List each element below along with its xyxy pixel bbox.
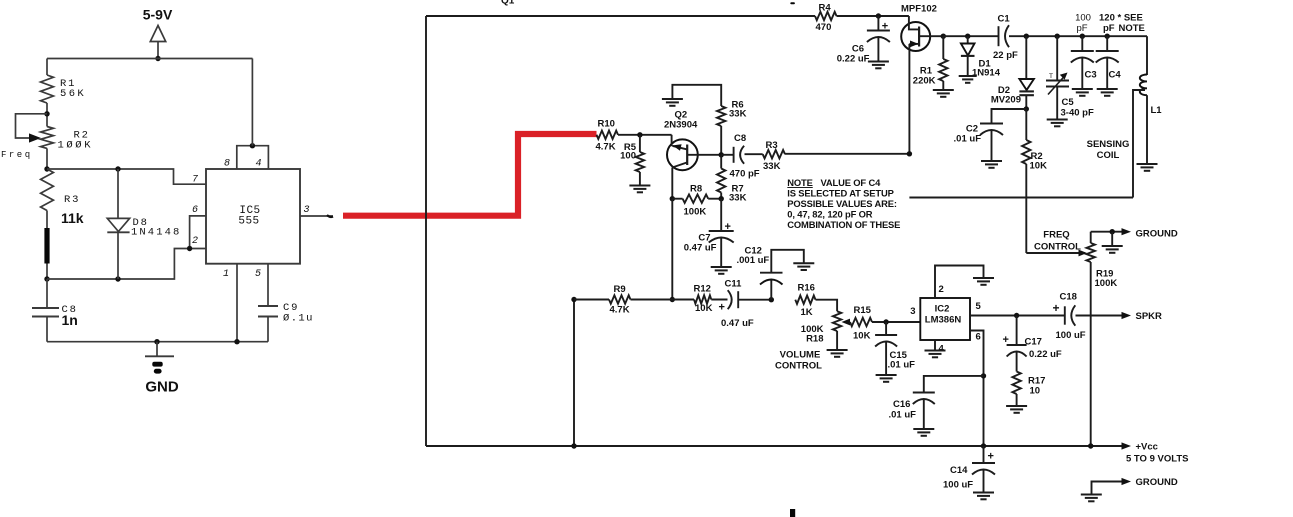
label C18 xyxy=(1060,292,1077,303)
svg-text:R4: R4 xyxy=(819,3,832,14)
wire emitter down xyxy=(671,199,673,300)
ground C5 xyxy=(1047,120,1068,127)
wire C8 bottom lead xyxy=(46,317,48,342)
label 100K xyxy=(58,140,94,152)
svg-text:6: 6 xyxy=(976,332,981,343)
wire R2 to freq pot xyxy=(1026,252,1085,254)
svg-text:* SEE: * SEE xyxy=(1118,13,1143,24)
label 3-40 pF xyxy=(1061,108,1094,119)
svg-text:2: 2 xyxy=(939,284,944,295)
svg-text:C3: C3 xyxy=(1085,70,1097,81)
svg-text:GROUND: GROUND xyxy=(1136,229,1178,240)
svg-text:100: 100 xyxy=(1075,13,1091,24)
ground R6 top xyxy=(662,99,683,106)
svg-text:10K: 10K xyxy=(1030,161,1048,172)
label C7 plus xyxy=(725,221,731,233)
node pin2-6 junction xyxy=(187,246,192,251)
label R8 xyxy=(690,184,702,195)
resistor R7 xyxy=(717,155,725,199)
wire feedback bottom xyxy=(909,197,1133,199)
svg-text:1n: 1n xyxy=(62,312,78,328)
wire R6 top rail xyxy=(672,85,721,106)
svg-text:R3: R3 xyxy=(766,140,778,151)
svg-text:COMBINATION OF THESE: COMBINATION OF THESE xyxy=(787,219,900,230)
label 56K xyxy=(60,88,86,100)
resistor R10 xyxy=(597,131,619,139)
wire drain to C1 xyxy=(943,35,998,37)
resistor R1 (osc) xyxy=(939,36,947,89)
node C17 junction xyxy=(1014,313,1019,318)
label 1K xyxy=(801,307,813,318)
ground pin4 xyxy=(925,351,946,358)
wire red output (555 pin3 to R10) xyxy=(343,134,597,216)
svg-text:0.22 uF: 0.22 uF xyxy=(1029,349,1062,360)
wire left column top xyxy=(46,59,48,76)
svg-text:4: 4 xyxy=(939,344,945,355)
svg-text:+: + xyxy=(1053,301,1060,315)
svg-text:.01 uF: .01 uF xyxy=(889,410,917,421)
svg-text:MV209: MV209 xyxy=(991,95,1021,106)
label GROUND (freq) xyxy=(1136,229,1178,240)
label C17 xyxy=(1025,337,1042,348)
label 470 xyxy=(816,22,832,33)
label D2 xyxy=(998,85,1010,96)
label 5 TO 9 VOLTS xyxy=(1126,454,1188,465)
ground C7 xyxy=(711,267,732,274)
label C11 xyxy=(725,279,743,290)
page mark xyxy=(790,509,795,517)
node source junction xyxy=(907,151,912,156)
label 2N3904 xyxy=(664,120,698,131)
ground R17 xyxy=(1006,406,1027,413)
node R8-R7 junction xyxy=(719,196,724,201)
svg-text:220K: 220K xyxy=(913,76,936,87)
potentiometer R19 xyxy=(1087,232,1095,446)
label R3 (33K) xyxy=(766,140,778,151)
ground C4 xyxy=(1097,89,1118,96)
svg-text:R10: R10 xyxy=(598,119,615,130)
svg-text:100 uF: 100 uF xyxy=(1056,330,1086,341)
svg-text:NOTE: NOTE xyxy=(1119,23,1145,34)
label CONTROL (vol) xyxy=(775,361,822,372)
svg-text:33K: 33K xyxy=(729,193,747,204)
svg-text:+: + xyxy=(882,21,888,33)
ground C2 xyxy=(981,161,1002,168)
label CONTROL (freq) xyxy=(1034,242,1081,253)
svg-text:33K: 33K xyxy=(763,161,781,172)
label SPKR xyxy=(1136,311,1163,322)
node drain junction xyxy=(941,34,946,39)
label 33K (R6) xyxy=(729,109,747,120)
node R5 junction xyxy=(637,132,642,137)
capacitor C6 xyxy=(867,16,890,61)
svg-text:1K: 1K xyxy=(801,307,813,318)
node D8 bottom junction xyxy=(115,276,120,281)
svg-text:VALUE OF C4: VALUE OF C4 xyxy=(821,177,882,188)
wire bar to node xyxy=(46,264,48,280)
svg-text:5-9V: 5-9V xyxy=(143,7,173,23)
svg-text:3: 3 xyxy=(910,306,915,317)
wire R9 to R12 xyxy=(631,299,695,301)
pin 2 (IC2) xyxy=(939,284,944,295)
wire R4 to gate node xyxy=(837,15,909,17)
node C15 junction xyxy=(883,319,888,324)
svg-text:C11: C11 xyxy=(725,279,743,290)
wire C8 top lead xyxy=(46,279,48,308)
svg-text:100K: 100K xyxy=(684,207,707,218)
capacitor C9 xyxy=(258,306,278,342)
pin 6 (IC2) xyxy=(976,332,981,343)
svg-text:GROUND: GROUND xyxy=(1136,477,1178,488)
label R19 xyxy=(1096,269,1113,280)
wire C1 to L1 corner xyxy=(1009,35,1147,37)
capacitor C1 xyxy=(999,25,1010,47)
arrow GROUND (freq) xyxy=(1122,228,1132,235)
node bottom R19 junction xyxy=(1088,443,1093,448)
pin 3 xyxy=(304,205,310,216)
wire R9 lead xyxy=(574,299,609,301)
wire R16 to R18 xyxy=(816,300,838,312)
ground C3 xyxy=(1072,89,1093,96)
label R15 xyxy=(854,305,872,316)
svg-text:0, 47, 82, 120 pF OR: 0, 47, 82, 120 pF OR xyxy=(787,209,872,220)
svg-text:SENSING: SENSING xyxy=(1087,139,1130,150)
ground R18 xyxy=(827,350,848,357)
svg-text:100K: 100K xyxy=(1095,278,1118,289)
ground C12 xyxy=(793,263,814,270)
svg-text:C4: C4 xyxy=(1109,70,1122,81)
capacitor C16 xyxy=(913,376,984,429)
label MV209 xyxy=(991,95,1021,106)
wire pin7 net xyxy=(47,169,206,184)
wire R6 to node xyxy=(720,126,722,155)
svg-text:3-40 pF: 3-40 pF xyxy=(1061,108,1094,119)
resistor R3 xyxy=(41,169,54,211)
svg-text:+: + xyxy=(988,451,994,463)
label 0.22 uF xyxy=(837,54,870,65)
label C17 plus xyxy=(1003,334,1009,346)
svg-text:4: 4 xyxy=(255,159,261,170)
resistor R12 xyxy=(694,295,711,303)
svg-text:VOLUME: VOLUME xyxy=(780,350,821,361)
svg-text:CONTROL: CONTROL xyxy=(775,361,822,372)
label C4 xyxy=(1109,70,1122,81)
svg-text:C8: C8 xyxy=(734,133,746,144)
node C16 junction xyxy=(981,373,986,378)
svg-text:56K: 56K xyxy=(60,88,86,100)
label .001 uF xyxy=(737,255,770,266)
ground D1 xyxy=(959,76,977,83)
svg-text:C14: C14 xyxy=(950,465,968,476)
ground C14 xyxy=(973,493,994,500)
label 555 xyxy=(238,216,259,228)
node Vcc junction on top rail xyxy=(155,56,160,61)
capacitor C15 xyxy=(875,322,897,375)
node C8 top junction xyxy=(44,276,49,281)
wire pin5 down xyxy=(267,264,269,306)
label R2 xyxy=(74,130,90,142)
svg-text:1ØØK: 1ØØK xyxy=(58,140,94,152)
capacitor C12 xyxy=(760,250,804,300)
label R12 xyxy=(694,284,711,295)
wire pin6 stub xyxy=(190,216,206,249)
resistor R9 xyxy=(609,295,631,303)
svg-text:C17: C17 xyxy=(1025,337,1042,348)
svg-text:5: 5 xyxy=(976,301,982,312)
svg-text:33K: 33K xyxy=(729,109,747,120)
node C6 junction xyxy=(876,13,881,18)
thick wire bar xyxy=(44,228,49,264)
label 0.47 uF (C11) xyxy=(721,318,754,329)
wire Vcc drop to bracket xyxy=(251,59,253,146)
node bracket junction xyxy=(250,143,255,148)
label 1N4148 xyxy=(131,227,181,239)
label 4.7K (R9) xyxy=(610,305,630,316)
label R4 xyxy=(819,3,832,14)
label .01 uF (C15) xyxy=(888,360,916,371)
svg-text:C16: C16 xyxy=(893,399,910,410)
label GROUND (bottom) xyxy=(1136,477,1178,488)
label IC5 xyxy=(239,205,260,217)
svg-text:FREQ: FREQ xyxy=(1043,230,1069,241)
label C14 xyxy=(950,465,968,476)
svg-text:POSSIBLE VALUES ARE:: POSSIBLE VALUES ARE: xyxy=(787,198,897,209)
node C12 junction xyxy=(769,297,774,302)
label 100 uF (C18) xyxy=(1056,330,1086,341)
resistor R1 xyxy=(41,75,54,103)
label 470 pF xyxy=(730,169,760,180)
svg-text:COIL: COIL xyxy=(1097,150,1120,161)
label R3 xyxy=(64,194,80,206)
label Freq xyxy=(1,150,33,160)
label R5 xyxy=(624,142,637,153)
label C14 plus xyxy=(988,451,994,463)
capacitor C18 xyxy=(1065,305,1123,325)
label R1 xyxy=(60,78,76,90)
svg-text:R16: R16 xyxy=(798,283,815,294)
svg-text:.01 uF: .01 uF xyxy=(954,134,982,145)
svg-text:11k: 11k xyxy=(61,210,84,226)
node C3 junction xyxy=(1080,34,1085,39)
wire R10 to base xyxy=(618,134,672,136)
svg-text:8: 8 xyxy=(224,159,230,170)
svg-text:100 uF: 100 uF xyxy=(943,480,973,491)
wire R9 branch vertical xyxy=(573,300,575,447)
svg-text:IC2: IC2 xyxy=(935,304,950,315)
svg-text:L1: L1 xyxy=(1151,105,1163,116)
label MPF102 xyxy=(901,4,937,15)
svg-text:1N4148: 1N4148 xyxy=(131,227,181,239)
svg-text:3: 3 xyxy=(304,205,310,216)
svg-text:LM386N: LM386N xyxy=(925,315,962,326)
node emitter-R8 junction xyxy=(670,196,675,201)
ground C15 xyxy=(876,375,897,382)
wire R3 to source line xyxy=(785,153,909,155)
label R10 xyxy=(598,119,615,130)
node bottom R9 junction xyxy=(571,443,576,448)
capacitor C8 left xyxy=(32,308,59,317)
diode D8 xyxy=(107,169,129,279)
ground C6 xyxy=(868,62,889,69)
svg-text:Ø.1u: Ø.1u xyxy=(283,313,314,325)
pin 6 xyxy=(192,205,198,216)
wire mid horizontal xyxy=(47,249,206,280)
ground bottom right xyxy=(1081,482,1123,502)
label 0.22 uF (C17) xyxy=(1029,349,1062,360)
label 100 uF (C14) xyxy=(943,480,973,491)
resistor R6 xyxy=(717,106,725,126)
svg-text:GND: GND xyxy=(145,379,179,396)
label R7 xyxy=(732,184,744,195)
wire top rail to R4 xyxy=(426,15,815,17)
label C6 plus xyxy=(882,21,888,33)
resistor R16 xyxy=(795,296,815,304)
svg-text:4.7K: 4.7K xyxy=(610,305,630,316)
wire top rail xyxy=(47,58,253,60)
ground L1 xyxy=(1137,164,1158,171)
label C8 (470pF) xyxy=(734,133,746,144)
svg-text:+: + xyxy=(725,221,731,233)
capacitor C3 xyxy=(1071,36,1094,88)
wire pin5 out xyxy=(970,315,1065,317)
node D8 top junction xyxy=(115,166,120,171)
pin 8 xyxy=(224,159,230,170)
svg-text:0.47 uF: 0.47 uF xyxy=(721,318,754,329)
label C1 xyxy=(998,14,1011,25)
label FREQ xyxy=(1043,230,1069,241)
svg-text:470: 470 xyxy=(816,22,832,33)
capacitor C17 xyxy=(1007,316,1027,372)
wire R3 to bar xyxy=(46,211,48,230)
pin 1 xyxy=(223,269,229,280)
label C2 xyxy=(966,124,978,135)
resistor R8 xyxy=(672,195,721,203)
svg-text:470 pF: 470 pF xyxy=(730,169,760,180)
label D8 xyxy=(133,217,149,229)
svg-text:+Vcc: +Vcc xyxy=(1136,442,1158,453)
svg-text:1: 1 xyxy=(223,269,229,280)
IC U5 555 box xyxy=(206,169,300,264)
svg-text:R9: R9 xyxy=(614,284,626,295)
resistor R2 xyxy=(41,127,54,149)
label 120 pF see note xyxy=(1099,13,1145,35)
potentiometer R18 xyxy=(833,311,841,349)
svg-text:7: 7 xyxy=(192,175,198,186)
label C9 xyxy=(283,302,299,314)
label C16 xyxy=(893,399,910,410)
pot wiper arrow xyxy=(29,133,41,142)
label C18 plus xyxy=(1053,301,1060,315)
svg-text:pF: pF xyxy=(1076,23,1087,34)
label 1n xyxy=(62,312,78,328)
stray mark xyxy=(790,2,795,4)
label C11 plus xyxy=(719,302,725,314)
label Q1 xyxy=(501,0,515,7)
pin 2 xyxy=(192,236,198,247)
freq wiper arrow xyxy=(1079,250,1088,257)
pin 5 (IC2) xyxy=(976,301,982,312)
resistor R3 (33K) xyxy=(763,150,785,158)
label C12 xyxy=(745,245,762,256)
node R2-R3 junction xyxy=(44,166,49,171)
svg-text:T: T xyxy=(1049,73,1053,80)
capacitor C4 xyxy=(1096,36,1119,88)
label 100 pF xyxy=(1075,13,1091,35)
label 10K (R12) xyxy=(695,303,713,314)
node emitter-R9 junction xyxy=(670,297,675,302)
svg-text:.001 uF: .001 uF xyxy=(737,255,770,266)
wire L1 tap xyxy=(1133,90,1145,198)
svg-text:4.7K: 4.7K xyxy=(596,142,616,153)
node bottom pin6 junction xyxy=(981,443,986,448)
pin 5 xyxy=(255,269,261,280)
svg-text:SPKR: SPKR xyxy=(1136,311,1163,322)
label 0.1u xyxy=(283,313,314,325)
label 33K (R7) xyxy=(729,193,747,204)
svg-text:MPF102: MPF102 xyxy=(901,4,937,15)
svg-text:NOTE: NOTE xyxy=(787,177,812,188)
ground R1 (osc) xyxy=(933,90,954,97)
svg-text:10K: 10K xyxy=(695,303,713,314)
label COIL xyxy=(1097,150,1120,161)
svg-text:100: 100 xyxy=(620,151,636,162)
label R16 xyxy=(798,283,815,294)
label 22 pF xyxy=(993,50,1018,61)
node pot tap xyxy=(44,111,49,116)
transistor Q1 MPF102 xyxy=(901,16,943,154)
svg-text:Q1: Q1 xyxy=(501,0,515,7)
label 100 (R5) xyxy=(620,151,636,162)
svg-text:0.47 uF: 0.47 uF xyxy=(684,243,717,254)
wire pin1 down xyxy=(236,264,238,342)
arrow +Vcc xyxy=(1122,442,1132,449)
svg-text:0.22 uF: 0.22 uF xyxy=(837,54,870,65)
ground C16 xyxy=(913,429,934,436)
ground R5 xyxy=(629,186,650,193)
label C15 xyxy=(890,350,908,361)
label 1N914 xyxy=(972,68,1001,79)
label R17 xyxy=(1028,376,1045,387)
label C3 xyxy=(1085,70,1097,81)
potentiometer wiper loop xyxy=(16,114,48,138)
svg-text:C5: C5 xyxy=(1062,97,1075,108)
resistor R2 (osc) xyxy=(1022,109,1030,253)
label VOLUME xyxy=(780,350,821,361)
svg-text:5: 5 xyxy=(255,269,261,280)
svg-text:+: + xyxy=(719,302,725,314)
ground pin2 xyxy=(973,278,994,285)
svg-text:Freq: Freq xyxy=(1,150,33,160)
wire pin4 ground xyxy=(934,340,936,350)
diode D1 xyxy=(961,36,975,75)
svg-text:R3: R3 xyxy=(64,194,80,206)
label 100K (R8) xyxy=(684,207,707,218)
wire pin2 to ground xyxy=(935,266,984,299)
wire pin6 down xyxy=(970,331,984,447)
IC U2 LM386 box xyxy=(920,298,970,340)
note text xyxy=(787,177,900,230)
arrow SPKR xyxy=(1122,312,1132,319)
pin 4 xyxy=(255,159,261,170)
resistor R15 wiper xyxy=(842,318,921,326)
wire pin8-4 bracket xyxy=(237,146,269,169)
label C6 xyxy=(852,44,864,55)
node pin1 bottom junction xyxy=(234,339,239,344)
svg-text:120: 120 xyxy=(1099,13,1115,24)
label 10K (R15) xyxy=(853,331,871,342)
label 100K (R18) xyxy=(801,324,824,335)
label .01 uF (C16) xyxy=(889,410,917,421)
